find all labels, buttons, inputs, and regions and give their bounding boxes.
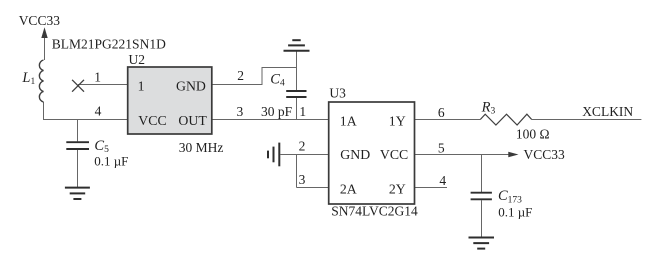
power flag VCC33 arrowhead (right) xyxy=(508,152,518,158)
wire C4 to OUT net xyxy=(296,98,298,120)
wire VCC33 arrow stem xyxy=(44,31,46,60)
svg-text:4: 4 xyxy=(439,173,446,188)
svg-text:U2: U2 xyxy=(129,52,146,67)
svg-text:1: 1 xyxy=(94,69,101,84)
svg-text:GND: GND xyxy=(340,147,370,162)
ground (top, above C4) xyxy=(284,40,310,51)
svg-text:2: 2 xyxy=(237,68,244,83)
svg-text:R3: R3 xyxy=(481,99,496,116)
svg-text:GND: GND xyxy=(176,79,206,94)
wire U3 pin 6 (1Y) to R3 xyxy=(414,119,481,121)
svg-text:1A: 1A xyxy=(340,113,357,128)
wire to U3 pin 3 (2A) xyxy=(297,187,330,189)
svg-text:VCC33: VCC33 xyxy=(19,13,61,28)
wire R3 to XCLKIN xyxy=(532,119,642,121)
svg-text:0.1 µF: 0.1 µF xyxy=(94,154,128,169)
wire node to U2 pin 4 (VCC) xyxy=(43,119,129,121)
svg-text:3: 3 xyxy=(299,172,306,187)
svg-text:30 pF: 30 pF xyxy=(261,104,293,119)
inductor L1 (ferrite bead) coil xyxy=(39,60,43,102)
oscillator U2 body xyxy=(128,67,212,134)
svg-text:1: 1 xyxy=(138,79,145,94)
svg-text:100 Ω: 100 Ω xyxy=(516,126,550,141)
svg-text:2: 2 xyxy=(299,138,306,153)
wire junction ground net down xyxy=(296,155,298,188)
wire L1 bottom lead xyxy=(43,102,45,120)
svg-text:5: 5 xyxy=(438,140,445,155)
svg-text:2A: 2A xyxy=(340,181,357,196)
svg-text:SN74LVC2G14: SN74LVC2G14 xyxy=(331,203,418,218)
resistor R3 zigzag xyxy=(480,114,531,125)
svg-text:C4: C4 xyxy=(270,71,285,88)
no-connect X marker xyxy=(72,80,84,92)
power flag VCC33 arrowhead (top left) xyxy=(41,27,47,38)
capacitor C5 plates xyxy=(66,142,89,149)
capacitor C4 plates xyxy=(286,91,306,97)
svg-text:VCC: VCC xyxy=(138,113,166,128)
svg-text:BLM21PG221SN1D: BLM21PG221SN1D xyxy=(52,37,166,52)
svg-text:U3: U3 xyxy=(329,85,346,100)
capacitor C173 plates xyxy=(471,193,492,200)
wire U2 pin 2 (GND) staircase to C4 net xyxy=(212,68,297,85)
svg-text:C173: C173 xyxy=(498,188,522,205)
ground (below C5) xyxy=(65,188,90,199)
svg-text:30 MHz: 30 MHz xyxy=(179,140,224,155)
svg-text:VCC33: VCC33 xyxy=(524,147,566,162)
svg-text:L1: L1 xyxy=(21,70,35,87)
wire U3 pin 4 (2Y) stub xyxy=(414,187,448,189)
ground (below C173) xyxy=(469,238,495,249)
wire pin 5 node down to C173 xyxy=(481,155,483,193)
wire top ground to C4 xyxy=(296,51,298,91)
svg-text:OUT: OUT xyxy=(178,113,207,128)
svg-text:1Y: 1Y xyxy=(389,113,406,128)
wire side ground to U3 pin 2 (GND) xyxy=(280,154,329,156)
wire X marker to U2 pin 1 xyxy=(78,84,129,86)
svg-text:VCC: VCC xyxy=(380,147,408,162)
svg-text:3: 3 xyxy=(237,104,244,119)
wire U2 pin 3 (OUT) to U3 pin 1 xyxy=(212,119,330,121)
svg-text:2Y: 2Y xyxy=(389,181,406,196)
capacitor C5 top lead xyxy=(77,120,79,142)
svg-text:1: 1 xyxy=(299,104,306,119)
inverter U3 body xyxy=(329,102,415,204)
svg-text:C5: C5 xyxy=(94,138,109,155)
svg-text:0.1 µF: 0.1 µF xyxy=(498,205,532,220)
svg-text:6: 6 xyxy=(438,105,445,120)
ground (sideways, left of U3) xyxy=(268,143,279,167)
wire U3 pin 5 (VCC) to VCC33 arrow xyxy=(414,154,511,156)
capacitor C5 bottom lead xyxy=(77,150,79,188)
svg-text:XCLKIN: XCLKIN xyxy=(582,104,633,119)
wire C173 to ground xyxy=(481,200,483,237)
svg-text:4: 4 xyxy=(95,104,102,119)
